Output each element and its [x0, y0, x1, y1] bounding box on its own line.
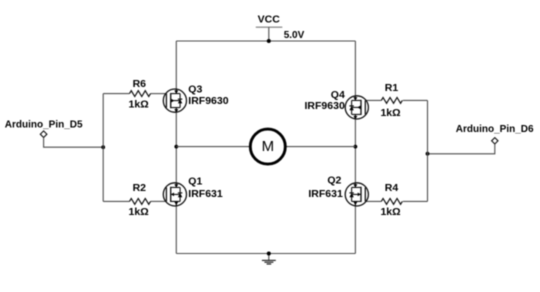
svg-text:Q2: Q2	[327, 175, 341, 187]
node Arduino_Pin_D6	[456, 124, 534, 144]
wire R2 to Q1 gate	[151, 200, 167, 202]
svg-text:5.0V: 5.0V	[284, 30, 305, 41]
svg-text:Q3: Q3	[188, 83, 202, 95]
wire motor right lead	[286, 146, 356, 148]
wire left branch to R6	[103, 93, 129, 95]
svg-text:R6: R6	[133, 78, 147, 90]
resistor R1	[380, 82, 402, 119]
transistor Q2 (N-MOSFET IRF631, mirrored)	[308, 175, 368, 206]
svg-text:Arduino_Pin_D5: Arduino_Pin_D5	[5, 119, 83, 130]
svg-text:IRF631: IRF631	[308, 188, 343, 200]
svg-text:R2: R2	[133, 182, 147, 194]
transistor Q3 (P-MOSFET IRF9630)	[163, 83, 228, 112]
wire from D5 pin to left branch	[44, 138, 104, 148]
svg-text:M: M	[262, 138, 275, 155]
transistor Q1 (N-MOSFET IRF631)	[163, 176, 223, 207]
svg-text:IRF9630: IRF9630	[305, 100, 345, 112]
wire right branch vertical	[427, 100, 429, 201]
transistor Q4 (P-MOSFET IRF9630, mirrored)	[305, 89, 369, 119]
junction D6 branch	[426, 152, 430, 156]
svg-text:1kΩ: 1kΩ	[380, 206, 400, 218]
svg-text:1kΩ: 1kΩ	[380, 107, 400, 119]
wire R6 to Q3 gate	[151, 93, 167, 95]
svg-text:IRF9630: IRF9630	[188, 95, 228, 107]
wire left branch vertical	[102, 94, 104, 202]
pin terminal D5	[40, 131, 47, 138]
wire R1 to right branch	[403, 99, 428, 101]
svg-text:Q1: Q1	[188, 176, 202, 188]
wire right rail (Q4 drain to Q2 drain)	[354, 41, 356, 254]
wire Q4 gate to R1	[365, 99, 381, 101]
svg-text:1kΩ: 1kΩ	[129, 206, 149, 218]
wire VCC stub	[268, 27, 270, 41]
resistor R6	[129, 78, 151, 111]
junction right rail to motor	[354, 145, 358, 149]
pin terminal D6	[492, 138, 498, 144]
wire from D6 pin to right branch	[428, 144, 495, 154]
resistor R2	[129, 182, 151, 218]
wire top rail VCC net	[176, 40, 355, 42]
junction D5 branch	[101, 145, 105, 149]
svg-text:Arduino_Pin_D6: Arduino_Pin_D6	[456, 124, 534, 135]
svg-text:R4: R4	[385, 182, 399, 194]
VCC bar	[256, 26, 282, 28]
node Arduino_Pin_D5	[5, 119, 83, 137]
svg-text:R1: R1	[385, 82, 399, 94]
wire motor left lead	[176, 146, 250, 148]
wire left branch to R2	[103, 200, 129, 202]
junction VCC node	[267, 39, 271, 43]
svg-text:1kΩ: 1kΩ	[129, 99, 149, 111]
svg-text:VCC: VCC	[258, 14, 281, 26]
wire bottom rail ground net	[176, 253, 355, 255]
ground	[262, 254, 276, 265]
motor M1	[250, 129, 285, 164]
wire left rail (Q3 drain to Q1 drain)	[175, 41, 177, 254]
junction left rail to motor	[174, 145, 178, 149]
resistor R4	[380, 182, 402, 218]
svg-text:Q4: Q4	[331, 89, 345, 101]
svg-text:IRF631: IRF631	[188, 188, 223, 200]
junction ground node	[267, 252, 271, 256]
wire R4 to right branch	[403, 200, 428, 202]
wire Q2 gate to R4	[365, 200, 381, 202]
power symbol VCC	[256, 14, 282, 41]
